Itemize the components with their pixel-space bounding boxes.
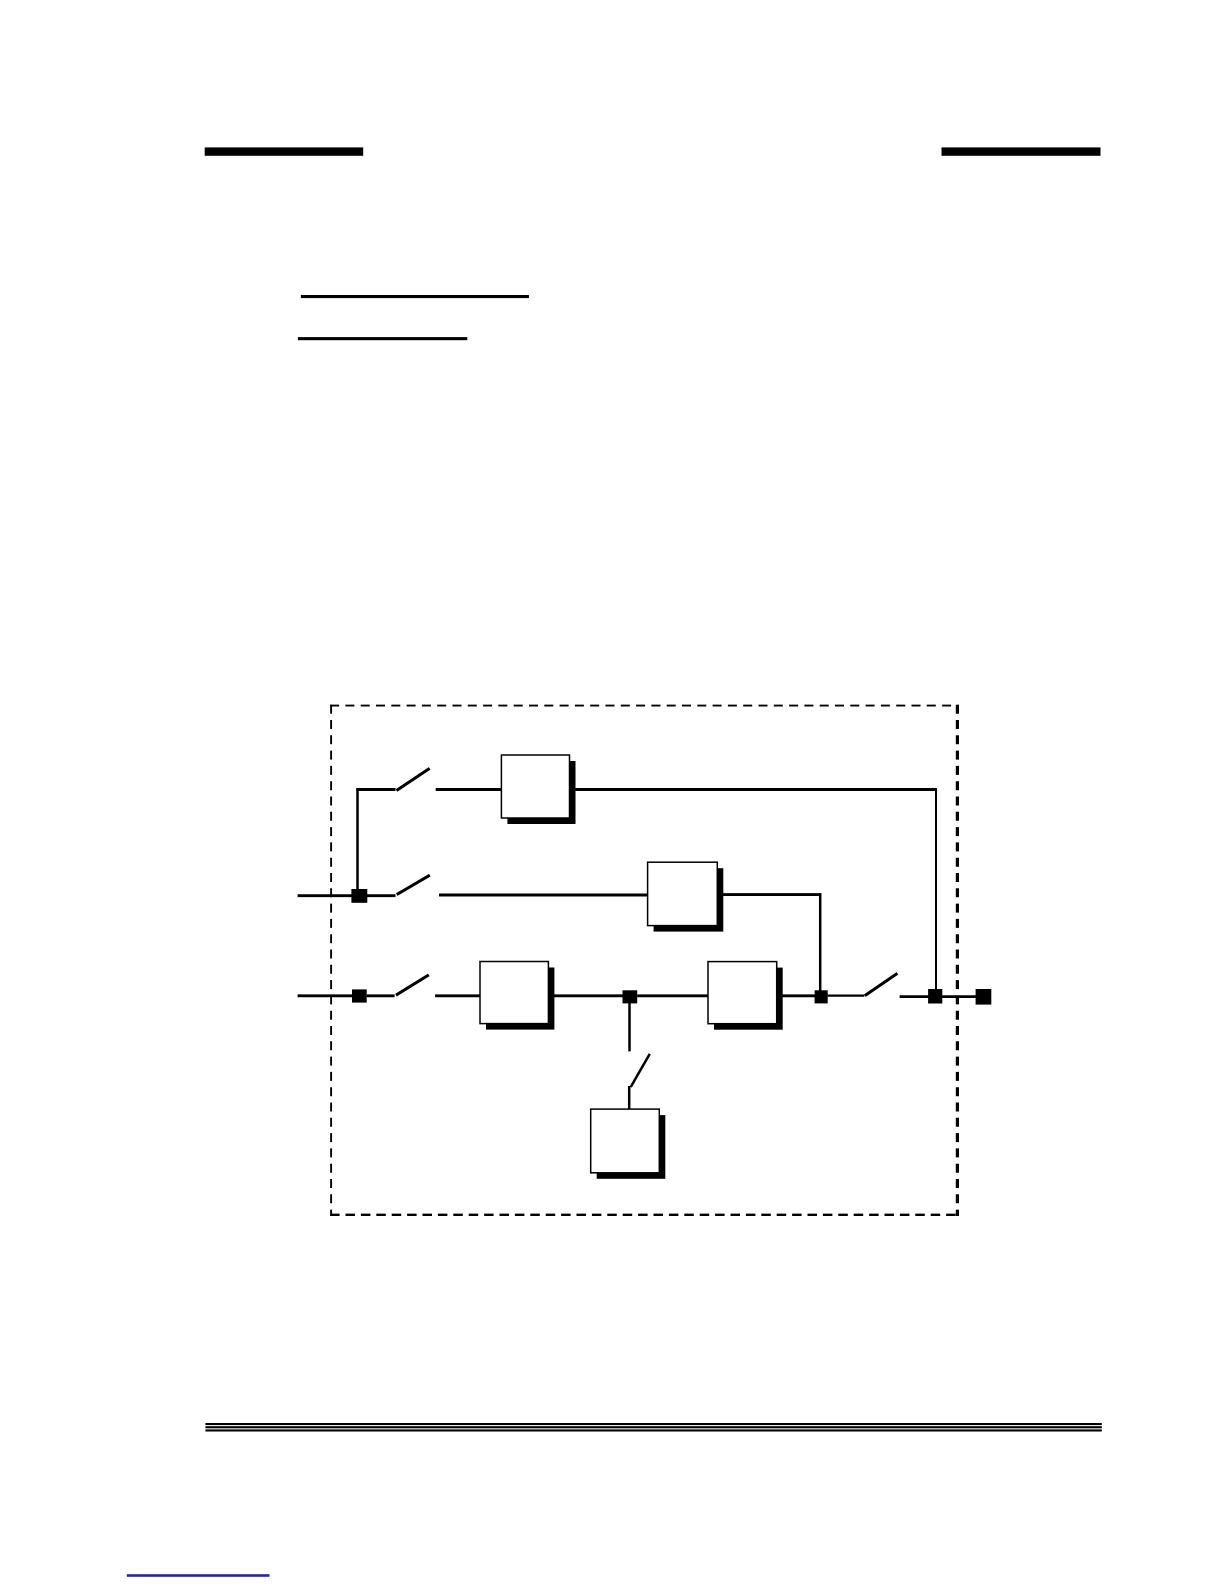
- wire switch S5 to block B5: [628, 1086, 631, 1110]
- node N2: [352, 989, 367, 1002]
- block B4: [708, 962, 777, 1024]
- switch S1 blade: [397, 768, 430, 790]
- dashed enclosure left edge: [330, 705, 332, 1216]
- header rule left: [205, 147, 364, 155]
- wire block B4 to node N3: [777, 994, 815, 997]
- wire switch S1 to block B1: [436, 788, 502, 791]
- block B5 shadow: [597, 1115, 666, 1179]
- footer triple rule line 2: [205, 1426, 1101, 1428]
- wire switch S2 to block B2: [439, 894, 648, 897]
- node J1 junction: [623, 990, 638, 1003]
- block B3: [480, 962, 548, 1024]
- heading underline 2: [298, 337, 467, 340]
- footer triple rule line 3: [205, 1429, 1101, 1431]
- footer triple rule line 1: [205, 1423, 1101, 1425]
- switch S3 blade: [396, 975, 429, 995]
- switch S4 blade: [865, 973, 898, 995]
- wire block B1 to right riser: [570, 788, 937, 791]
- block B1 shadow: [507, 761, 575, 824]
- heading underline 1: [301, 295, 529, 298]
- node N3: [815, 990, 828, 1003]
- wire row2 input: [298, 894, 352, 897]
- block B2: [648, 862, 718, 925]
- node N4: [928, 989, 942, 1004]
- block B1: [501, 755, 569, 818]
- wire node N3 to switch S4: [828, 994, 865, 996]
- node N5 output: [976, 989, 992, 1005]
- wire row1 to switch S1: [356, 788, 395, 791]
- wire switch S4 through node N4 to node N5: [900, 995, 983, 998]
- node N1: [351, 889, 367, 903]
- switch S2 blade: [397, 875, 430, 894]
- wire row1 riser from node N1: [356, 788, 359, 896]
- wire right riser down to node N4: [935, 788, 937, 997]
- wire row3 input: [298, 994, 352, 997]
- wire node J1 to block B4: [637, 994, 708, 997]
- wire node N1 to switch S2: [367, 894, 396, 897]
- dashed enclosure top edge: [330, 705, 959, 707]
- wire node J1 down to switch S5: [628, 1003, 631, 1051]
- wire block B2 to drop riser: [717, 893, 821, 896]
- block B3 shadow: [486, 968, 554, 1030]
- dashed enclosure right edge: [956, 705, 959, 1216]
- footer link underline: [127, 1574, 270, 1577]
- wire node N2 to switch S3: [367, 994, 395, 997]
- block B4 shadow: [714, 968, 783, 1030]
- dashed enclosure bottom edge: [330, 1214, 959, 1216]
- wire switch S3 to block B3: [435, 994, 481, 997]
- switch S5 blade: [631, 1054, 650, 1087]
- block B5: [591, 1109, 660, 1173]
- block B2 shadow: [654, 868, 724, 931]
- wire drop riser down to node N3: [819, 893, 822, 996]
- header rule right: [942, 147, 1101, 155]
- wire block B3 to node J1: [548, 994, 630, 997]
